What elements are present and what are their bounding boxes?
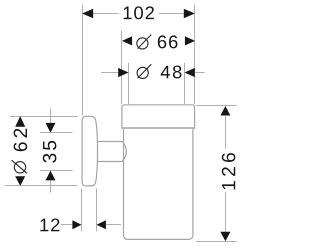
dimension 102: right arrow <box>184 9 195 18</box>
extension line: cup right edge up (102/66 right) <box>194 5 196 105</box>
dimension 48: right arrow and shaft (outside, pointing left) <box>185 68 195 77</box>
dimension 62: bottom arrow (down) <box>15 176 25 186</box>
dimension 62: label (rotated) <box>14 129 28 152</box>
dimension 66: right arrow <box>185 36 195 45</box>
dimension 102: shafts <box>93 13 184 15</box>
cup body <box>124 129 193 240</box>
extension line: plate right edge down (12 right) <box>96 189 98 232</box>
dimension 48: diameter symbol <box>137 64 151 78</box>
extension line: plate left edge up (102 left) <box>82 5 84 116</box>
dimension 66: label <box>158 35 178 48</box>
extension line: inner diameter left (48) <box>128 63 130 104</box>
dimension 66: left arrow <box>122 36 132 45</box>
extension line: plate top to left (62 top) <box>10 116 78 118</box>
dimension 48: left shaft and arrow (outside, pointing right) <box>101 72 118 74</box>
extension line: cup left edge up (66 left) <box>121 31 123 105</box>
dimension 62: diameter symbol (rotated) <box>12 160 27 173</box>
extension line: cup bottom to right (126 bottom) <box>196 241 236 243</box>
dimension 126: top arrow (up) <box>220 106 230 116</box>
dimension 62: top arrow (up) <box>15 116 25 127</box>
dimension 126: bottom arrow (down) <box>220 232 230 242</box>
dimension 126: label (rotated) <box>222 153 236 189</box>
extension line: 35 top <box>40 132 72 134</box>
dimension 12: right arrow and shaft (outside, pointing left) <box>97 220 106 229</box>
dimension 66: diameter symbol <box>137 35 152 50</box>
dimension 12: label <box>40 218 59 231</box>
dimension 102: label <box>124 6 154 19</box>
dimension 35: top shaft and arrow (outside, pointing down) <box>50 109 52 124</box>
extension line: plate bottom to left (62 bottom) <box>5 185 78 187</box>
extension line: cup top to right (126 top) <box>196 105 236 107</box>
extension line: inner diameter right (48) <box>184 63 186 104</box>
dimension 102: left arrow <box>82 9 93 18</box>
mounting arm (top and bottom lines) <box>97 142 123 162</box>
wall plate (escutcheon, side view) <box>82 116 97 186</box>
dimension 126: shafts <box>225 115 227 232</box>
dimension 35: label (rotated) <box>43 141 57 163</box>
rim bottom seam <box>122 127 195 129</box>
dimension 48: label <box>161 66 182 79</box>
collar boss arc on cup left edge <box>122 142 126 162</box>
cup rim (top band) <box>122 105 195 128</box>
dimension 12: left shaft and arrow (outside, pointing right) <box>61 224 73 226</box>
extension line: 35 bottom <box>40 170 72 172</box>
extension line: plate left edge down (12 left) <box>81 189 83 232</box>
dimension 35: bottom arrow (outside, pointing up) and shaft <box>46 171 56 181</box>
